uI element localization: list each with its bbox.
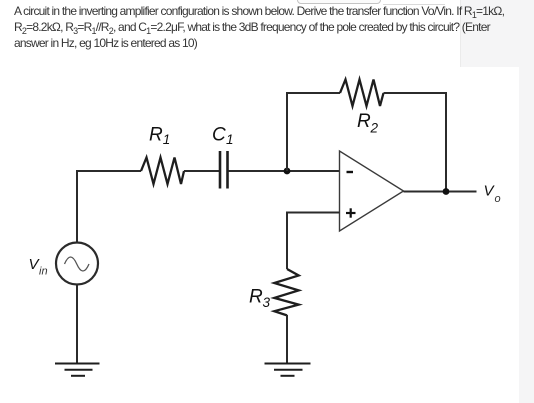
wire: output from op-amp to Vo [404,191,477,193]
svg-text:R: R [357,111,371,132]
svg-text:o: o [495,193,501,205]
question text line 1 [14,5,504,18]
ground (R3) [265,364,311,376]
resistor R2 [340,80,384,107]
resistor R1 [141,158,184,185]
svg-text:R: R [249,287,263,308]
wire: source bottom to ground [76,285,78,365]
wire: source top to input corner to R1 [77,171,141,243]
svg-text:1: 1 [226,132,234,147]
gray page background top-right block [460,0,534,67]
wire: feedback top right segment [384,92,448,94]
wire: non-inverting input horizontal [287,212,340,214]
tooltip sliver cut at top edge [297,0,381,4]
ground (source) [55,364,100,376]
op-amp plus sign [346,208,356,217]
voltage source sine wave [65,257,90,271]
question text line 3 [14,37,197,50]
wire: feedback right vertical down to output [445,92,447,192]
resistor R3 [274,269,298,315]
faint popup bottom edge right segment [383,4,445,5]
node B: output junction dot [443,188,450,195]
svg-text:3: 3 [263,295,271,310]
wire: C1 to op-amp inverting input [229,170,340,172]
question text line 2 [14,21,490,34]
wire: feedback left vertical [286,93,288,171]
svg-text:C: C [212,125,226,146]
op-amp minus sign [347,171,354,173]
op-amp U1 [340,151,404,231]
wire: feedback top left segment [286,92,340,94]
svg-text:in: in [39,266,48,278]
voltage source Vin [56,243,98,285]
svg-text:2: 2 [370,121,379,136]
capacitor C1 [220,151,228,189]
wire: R3 to ground [286,315,288,364]
wire: R1 to C1 [184,170,219,172]
node A: summing junction dot [284,168,291,175]
gray page background right strip [519,67,534,403]
svg-text:1: 1 [163,132,171,147]
svg-text:R: R [149,125,163,146]
wire: non-inverting input vertical down to R3 [286,212,288,270]
